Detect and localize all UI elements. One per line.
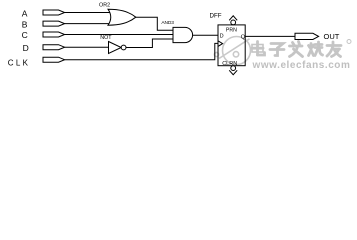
svg-text:NOT: NOT: [100, 35, 112, 41]
svg-text:CLRN: CLRN: [222, 61, 237, 67]
svg-text:www.elecfans.com: www.elecfans.com: [252, 60, 351, 71]
svg-text:DFF: DFF: [210, 12, 222, 19]
svg-text:OUT: OUT: [324, 32, 340, 41]
svg-text:D: D: [23, 43, 29, 53]
svg-text:Q: Q: [241, 34, 246, 40]
svg-text:OR2: OR2: [99, 3, 110, 9]
svg-text:D: D: [220, 34, 224, 40]
svg-text:PRN: PRN: [226, 28, 237, 34]
svg-text:A: A: [22, 8, 28, 18]
svg-text:AND3: AND3: [161, 20, 174, 26]
svg-text:C: C: [22, 30, 28, 40]
svg-text:B: B: [22, 19, 28, 29]
svg-text:CLK: CLK: [8, 58, 30, 67]
